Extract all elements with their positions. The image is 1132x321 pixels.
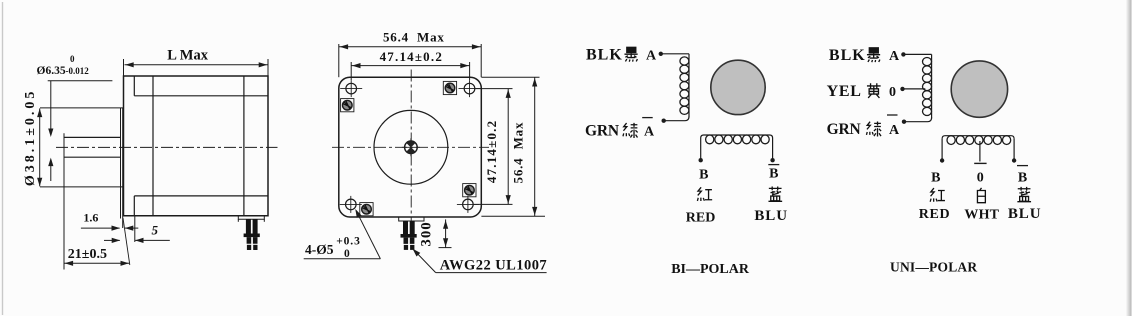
front view: 4-dia5 leader line	[356, 210, 381, 259]
front view: 56.4 right dimension extension lines	[481, 76, 539, 78]
svg-text:56.4 Max: 56.4 Max	[511, 122, 526, 184]
bi-polar: label blue character	[768, 186, 782, 201]
front view: 300 wire length end tick	[439, 247, 452, 249]
front view: 56.4 Max top dimension line	[339, 46, 481, 48]
uni-polar: label red character	[930, 188, 945, 202]
page right shadow band	[1126, 0, 1132, 316]
uni-polar: wire phase A top	[903, 53, 931, 55]
svg-text:Ø38.1±0.05: Ø38.1±0.05	[23, 89, 38, 187]
svg-text:BLK: BLK	[829, 47, 866, 64]
svg-text:21±0.5: 21±0.5	[68, 247, 107, 262]
page left border	[2, 2, 4, 315]
svg-text:GRN: GRN	[827, 121, 861, 138]
svg-text:UNI—POLAR: UNI—POLAR	[890, 260, 977, 275]
svg-text:BI—POLAR: BI—POLAR	[671, 262, 750, 277]
svg-text:300: 300	[418, 221, 434, 246]
front view: lead wire connector band	[401, 234, 417, 238]
front view: 4-dia5 callout underline	[304, 258, 381, 260]
side view: lead wire connector lower pins	[247, 237, 252, 244]
front view: lead wire connector plate	[399, 217, 424, 221]
front view: square flange outline rounded corners	[339, 77, 482, 217]
svg-text:47.14±0.2: 47.14±0.2	[484, 120, 499, 183]
front view: corner screw top-right	[445, 83, 455, 93]
svg-text:0: 0	[977, 170, 984, 185]
side view: pilot boss top line / dia 38.1 extension	[40, 107, 124, 109]
svg-text:56.4 Max: 56.4 Max	[383, 29, 445, 44]
front view: corner screw bottom-right	[465, 185, 475, 195]
front view: vertical centerline dash-dot	[410, 70, 412, 225]
svg-text:B: B	[931, 170, 940, 185]
svg-text:YEL: YEL	[827, 83, 862, 100]
svg-text:0: 0	[344, 248, 350, 260]
front view: mounting hole top-right	[464, 83, 475, 94]
svg-text:AWG22 UL1007: AWG22 UL1007	[440, 257, 547, 273]
uni-polar: label blue character	[1017, 187, 1031, 202]
svg-text:+0.3: +0.3	[336, 236, 361, 248]
side view: lead wire connector plate	[238, 216, 264, 220]
svg-text:47.14±0.2: 47.14±0.2	[380, 49, 443, 64]
front view: shaft circle crosshair	[402, 146, 420, 148]
uni-polar: wire center tap drop	[979, 141, 981, 162]
svg-text:0: 0	[70, 54, 75, 64]
bi-polar: wire phase A-bar bottom	[664, 117, 689, 121]
svg-text:0: 0	[889, 85, 896, 100]
side view: shaft bottom line	[64, 156, 121, 158]
side view: body inner bottom line	[134, 195, 268, 197]
side view: rear end cap boundary	[243, 76, 245, 216]
svg-text:A: A	[644, 125, 655, 140]
front view: AWG22 label underline	[436, 272, 547, 274]
front view: AWG22 leader line	[414, 250, 436, 273]
side view: shaft top line	[64, 136, 121, 138]
svg-text:A: A	[646, 48, 657, 63]
front view: shaft circle dark quadrants	[407, 141, 416, 147]
svg-text:L Max: L Max	[167, 47, 208, 63]
front view: corner screw bottom-left	[362, 204, 372, 214]
bi-polar: coil phase B	[701, 135, 773, 138]
bi-polar: wire phase B left drop	[700, 138, 702, 159]
front view: 56.4 right dimension line	[534, 77, 536, 216]
svg-text:WHT: WHT	[964, 208, 999, 223]
side view: flange rear edge top segment	[133, 76, 135, 96]
svg-text:B: B	[769, 166, 778, 181]
svg-text:1.6: 1.6	[83, 210, 98, 224]
bi-polar: wire phase A top	[661, 53, 689, 55]
side view: center axis dash-dot line	[56, 146, 278, 148]
front view: pilot circle	[374, 110, 448, 184]
side view: lead wire connector band	[244, 234, 260, 238]
svg-text:BLK: BLK	[586, 46, 623, 63]
front view: mounting hole bottom-left	[346, 199, 357, 210]
front view: 47.14 right dimension extension lines	[476, 88, 513, 90]
svg-text:-0.012: -0.012	[66, 66, 90, 76]
front view: lead wire connector pins	[403, 221, 408, 234]
bi-polar: coil phase A	[688, 54, 690, 118]
side view: pilot boss face double line	[120, 108, 122, 219]
uni-polar: coil phase B	[942, 136, 1014, 139]
svg-text:BLU: BLU	[1008, 206, 1042, 222]
side view: 1.6 dimension leader and arrows	[81, 227, 120, 229]
svg-text:BLU: BLU	[754, 208, 788, 224]
front view: 47.14 top dimension extension lines	[350, 62, 352, 80]
side view: flange rear edge bottom segment	[133, 196, 135, 216]
front view: lead wire connector feet	[401, 243, 418, 245]
front view: 47.14 top dimension line	[351, 65, 469, 67]
front view: horizontal centerline dash-dot	[332, 146, 489, 148]
uni-polar: label white character	[977, 188, 985, 203]
svg-text:B: B	[699, 167, 708, 182]
side view: body inner top line	[134, 95, 268, 97]
side view: 5 dimension extension line	[134, 216, 136, 242]
side view: pilot boss bottom line / dia 38.1 extension	[40, 186, 124, 188]
front view: 56.4 Max top dimension extension lines	[338, 44, 340, 77]
side view: dia 38.1 dimension line	[39, 108, 41, 186]
side view: front end cap boundary	[152, 76, 154, 216]
svg-text:RED: RED	[686, 211, 716, 226]
side view: 21 dimension right extension line slanted	[123, 218, 130, 265]
bi-polar: label red character	[697, 187, 712, 201]
side view: lead wire connector feet	[244, 243, 261, 245]
svg-text:RED: RED	[919, 207, 951, 222]
svg-text:GRN: GRN	[585, 123, 619, 140]
front view: corner screw top-left	[343, 100, 353, 110]
svg-text:A: A	[889, 123, 900, 138]
side view: lead wire connector pins	[246, 219, 251, 234]
svg-text:Ø6.35: Ø6.35	[37, 65, 66, 77]
front view: mounting hole top-left	[346, 83, 357, 94]
side view: dia 6.35 lower arrow	[50, 164, 52, 181]
front view: 47.14 right dimension line	[507, 89, 509, 205]
uni-polar: rotor circle	[951, 61, 1007, 117]
bi-polar: rotor circle	[711, 60, 765, 114]
side view: dia 6.35 leader underline	[48, 80, 113, 82]
bi-polar: wire phase B-bar right drop	[772, 138, 774, 159]
front view: mounting hole bottom-right	[463, 199, 474, 210]
side view: L Max dimension line	[125, 64, 268, 66]
front view: lead wire connector lower pins	[404, 238, 409, 245]
svg-text:4-Ø5: 4-Ø5	[305, 242, 334, 257]
front view: shaft circle	[405, 141, 418, 154]
svg-text:A: A	[889, 49, 900, 64]
side view: motor body outline	[124, 76, 269, 216]
uni-polar: wire phase B left drop	[941, 139, 943, 159]
front view: 300 wire length dimension line	[445, 219, 447, 247]
side view: 21 dimension line	[64, 262, 129, 264]
side view: dia 6.35 upper arrow	[50, 81, 52, 130]
front view: bottom edge extension to right	[481, 215, 545, 217]
side view: 5 dimension arrows	[104, 239, 120, 241]
side view: L Max dimension extension lines	[123, 59, 125, 76]
uni-polar: wire phase A-bar bottom	[904, 118, 932, 122]
uni-polar: wire center tap	[903, 88, 926, 90]
side view: shaft end face and 21 dimension extension line	[63, 133, 65, 269]
svg-text:5: 5	[152, 223, 159, 238]
uni-polar: coil phase A	[931, 54, 933, 118]
svg-text:B: B	[1018, 170, 1027, 185]
uni-polar: wire phase B-bar right drop	[1013, 139, 1015, 159]
